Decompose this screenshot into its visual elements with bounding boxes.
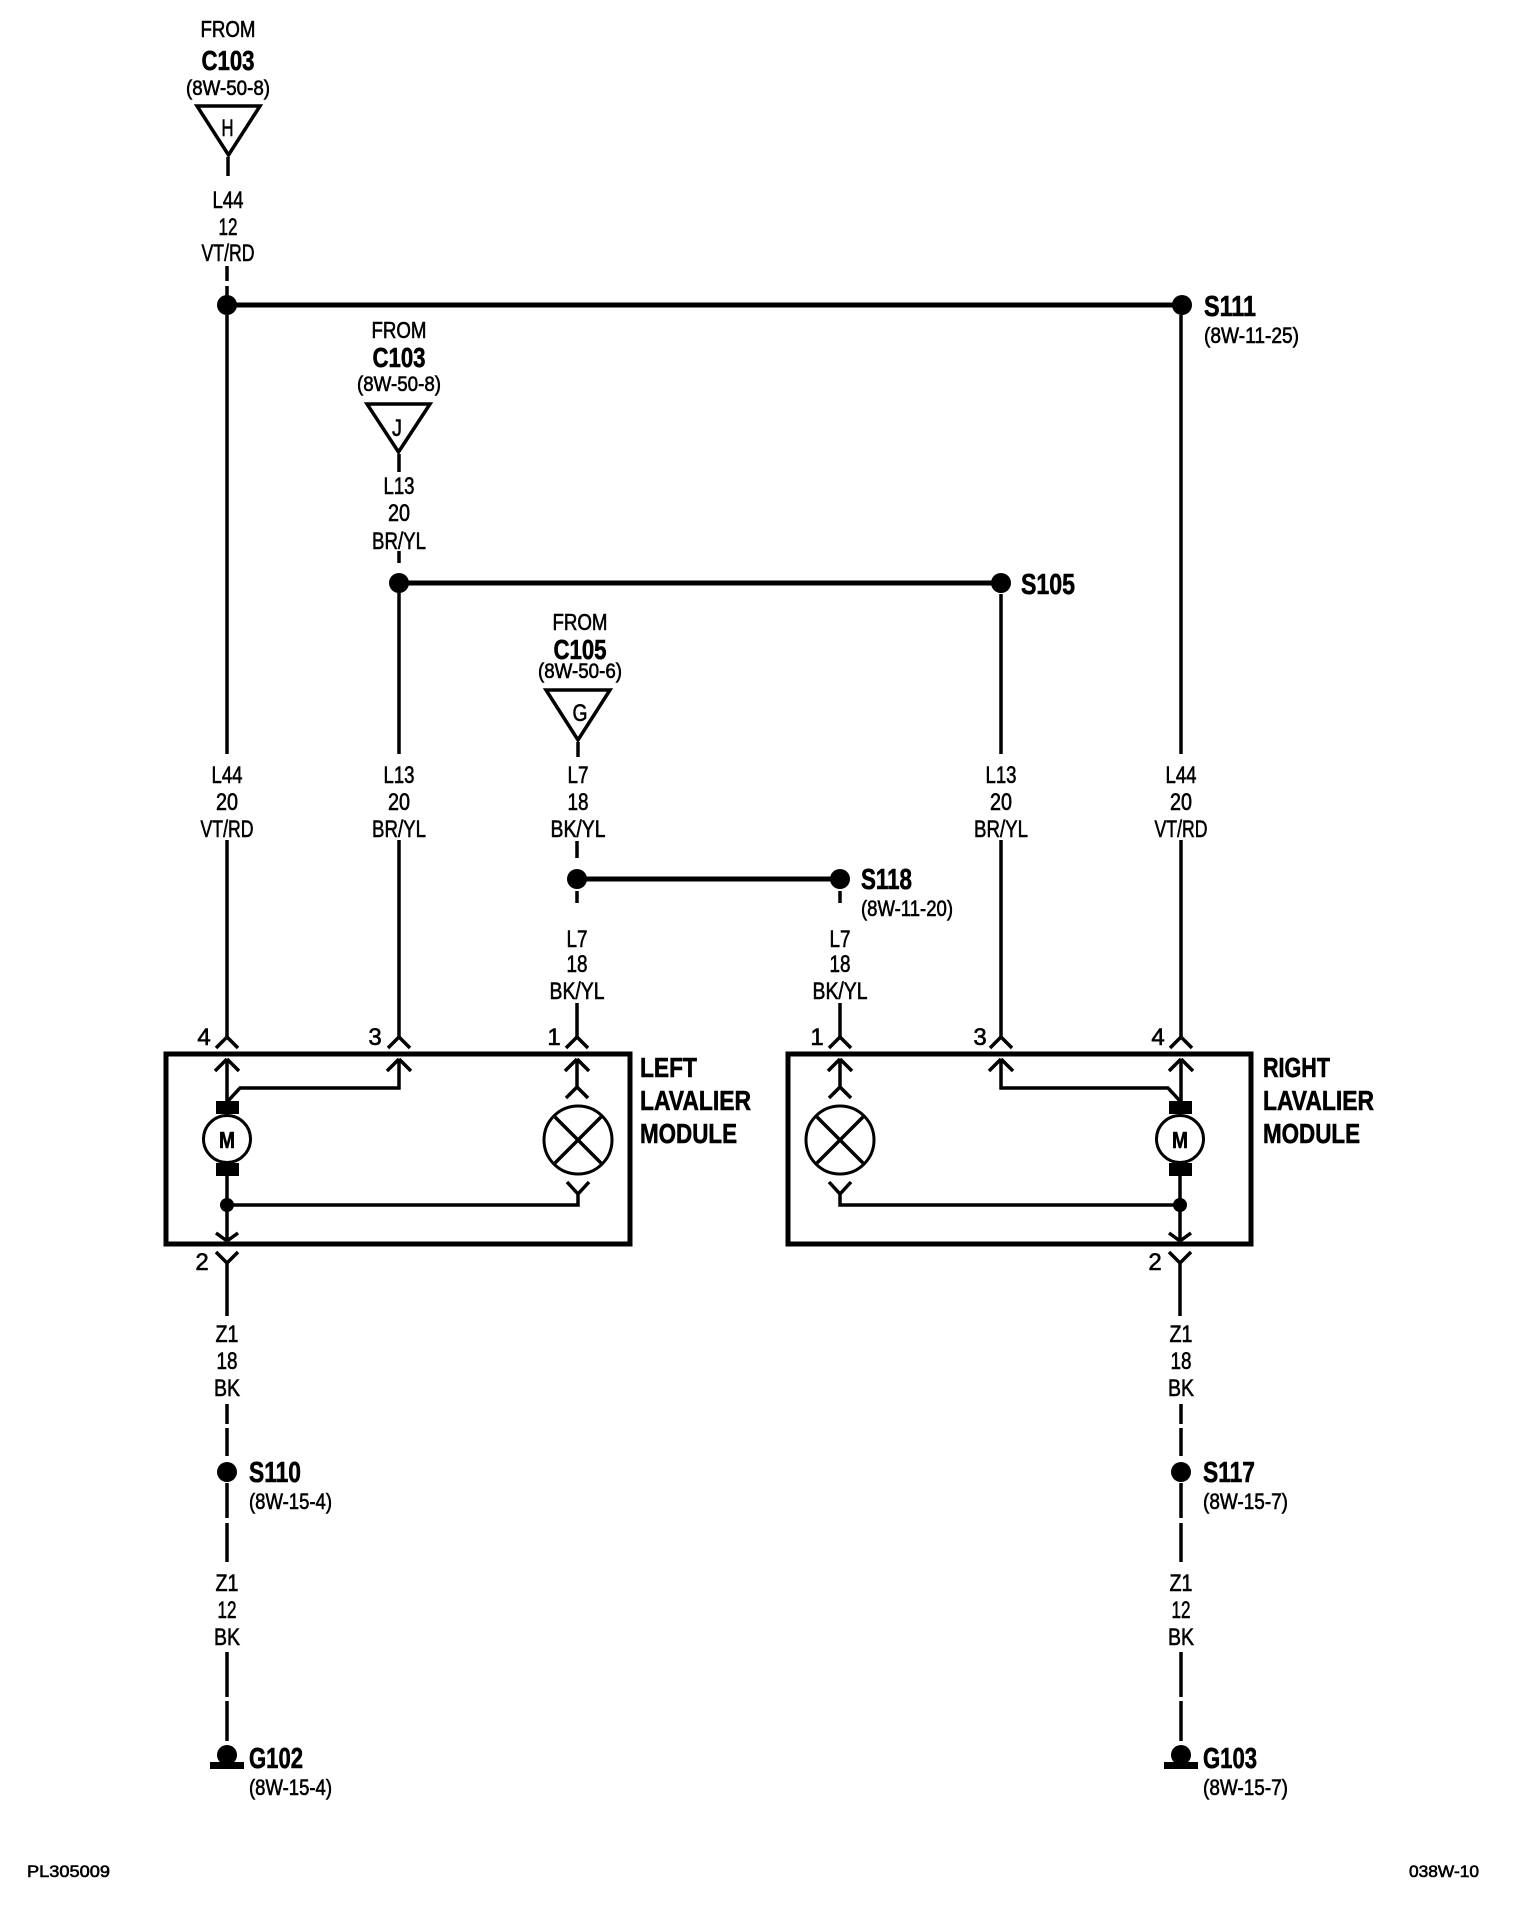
pin 2 left module [195, 1249, 238, 1316]
svg-text:(8W-50-8): (8W-50-8) [357, 373, 441, 396]
svg-text:18: 18 [217, 1348, 238, 1375]
pin 3 left module [368, 1024, 411, 1071]
svg-text:20: 20 [216, 789, 238, 816]
wire pin1 right to lamp [829, 1059, 851, 1098]
svg-text:S110: S110 [249, 1457, 301, 1489]
module box LEFT LAVALIER MODULE [166, 1054, 630, 1244]
svg-text:L13: L13 [384, 762, 415, 789]
svg-text:(8W-15-7): (8W-15-7) [1203, 1489, 1288, 1514]
lamp right [806, 1106, 874, 1174]
svg-text:PL305009: PL305009 [27, 1862, 110, 1881]
label Z1 18 BK left [214, 1321, 240, 1402]
wire L7 18 BK/YL from G to S118 [577, 742, 578, 858]
label L44 12 VT/RD [202, 187, 255, 267]
wire L44 12 VT/RD from H to S111 [227, 157, 228, 296]
svg-text:L13: L13 [986, 762, 1017, 789]
svg-text:L13: L13 [384, 473, 415, 500]
label L44 20 VT/RD (left column) [201, 762, 254, 843]
svg-text:038W-10: 038W-10 [1409, 1862, 1479, 1881]
svg-text:4: 4 [1151, 1024, 1164, 1051]
wire Z1 18 BK right to S117 [1179, 1404, 1183, 1456]
svg-text:20: 20 [1170, 789, 1192, 816]
label Z1 12 BK right [1168, 1570, 1194, 1651]
svg-text:BK: BK [1168, 1375, 1194, 1402]
pin 1 right module [810, 1024, 852, 1071]
svg-text:1: 1 [810, 1024, 823, 1051]
svg-text:2: 2 [1148, 1249, 1161, 1276]
wire S118 bus [577, 877, 840, 882]
svg-text:(8W-11-25): (8W-11-25) [1204, 323, 1299, 348]
splice S118 [830, 864, 953, 921]
svg-text:18: 18 [568, 789, 589, 816]
pin 2 right module [1148, 1249, 1191, 1316]
svg-text:(8W-50-6): (8W-50-6) [538, 660, 622, 683]
wire L7 18 BK/YL to pin 1 left [575, 891, 579, 1037]
node junction L13/S105 left [389, 573, 409, 593]
wire to ground G103 [1179, 1652, 1183, 1741]
svg-text:20: 20 [388, 789, 410, 816]
ground G103 [1164, 1743, 1288, 1800]
svg-text:18: 18 [830, 951, 851, 978]
wire pin3 left to motor [228, 1061, 399, 1101]
svg-text:3: 3 [368, 1024, 381, 1051]
module box RIGHT LAVALIER MODULE [788, 1054, 1251, 1244]
wire L44 20 VT/RD right (S111 to pin 4 right) [1179, 315, 1183, 1037]
svg-text:20: 20 [990, 789, 1012, 816]
ground G102 [210, 1743, 332, 1800]
svg-text:20: 20 [388, 500, 410, 527]
svg-text:BK: BK [1168, 1624, 1194, 1651]
svg-text:LEFT: LEFT [640, 1052, 697, 1083]
svg-text:(8W-15-7): (8W-15-7) [1203, 1775, 1288, 1800]
svg-text:VT/RD: VT/RD [201, 816, 254, 843]
svg-text:(8W-15-4): (8W-15-4) [249, 1489, 332, 1514]
wire S105 bus [399, 581, 1001, 586]
svg-text:MODULE: MODULE [640, 1118, 737, 1149]
svg-text:VT/RD: VT/RD [1155, 816, 1208, 843]
svg-text:G102: G102 [249, 1743, 303, 1775]
svg-text:RIGHT: RIGHT [1263, 1052, 1330, 1083]
splice S105 [991, 569, 1075, 601]
svg-text:G103: G103 [1203, 1743, 1257, 1775]
wire pin3 right to motor [1001, 1061, 1180, 1101]
node junction dot left module [220, 1198, 234, 1212]
pin 1 left module [547, 1024, 589, 1071]
svg-text:1: 1 [547, 1024, 560, 1051]
wire Z1 12 BK right [1179, 1483, 1183, 1562]
node junction dot right module [1173, 1198, 1187, 1212]
svg-text:Z1: Z1 [216, 1321, 239, 1348]
svg-text:H: H [222, 115, 234, 142]
svg-text:MODULE: MODULE [1263, 1118, 1360, 1149]
label RIGHT LAVALIER MODULE [1263, 1052, 1374, 1149]
motor M right [1157, 1101, 1204, 1176]
label L13 20 BR/YL (right column) [974, 762, 1028, 843]
svg-text:L7: L7 [830, 926, 851, 953]
lamp left [544, 1106, 612, 1174]
svg-text:12: 12 [1172, 1597, 1191, 1624]
svg-text:Z1: Z1 [1170, 1570, 1193, 1597]
svg-text:3: 3 [973, 1024, 986, 1051]
label L44 20 VT/RD (right column) [1155, 762, 1208, 843]
svg-text:C103: C103 [202, 45, 255, 76]
wire pin1 left to lamp [566, 1059, 588, 1098]
svg-text:FROM: FROM [372, 317, 427, 343]
svg-text:BK/YL: BK/YL [551, 816, 606, 843]
svg-text:BK: BK [214, 1375, 240, 1402]
svg-text:G: G [573, 700, 588, 727]
wire S111 bus [227, 303, 1182, 308]
svg-text:2: 2 [195, 1249, 208, 1276]
label Z1 18 BK right [1168, 1321, 1194, 1402]
svg-text:(8W-50-8): (8W-50-8) [186, 77, 270, 100]
wire Z1 12 BK left [225, 1483, 229, 1562]
wire lamp left to junction [227, 1182, 589, 1205]
wire L7 18 BK/YL to pin 1 right [838, 891, 842, 1037]
connector H (FROM C103) [186, 16, 270, 155]
wire motor right to pin 2 [1169, 1176, 1191, 1241]
svg-text:L44: L44 [212, 762, 243, 789]
svg-text:18: 18 [1171, 1348, 1192, 1375]
connector J (FROM C103) [357, 317, 441, 452]
label L13 20 BR/YL (left column) [372, 762, 426, 843]
svg-text:LAVALIER: LAVALIER [640, 1085, 751, 1116]
svg-text:S111: S111 [1204, 291, 1256, 323]
splice S111 [1172, 291, 1299, 348]
svg-text:C103: C103 [373, 342, 426, 373]
svg-text:FROM: FROM [201, 16, 256, 42]
svg-text:BR/YL: BR/YL [372, 816, 426, 843]
svg-text:18: 18 [567, 951, 588, 978]
label L7 18 BK/YL (above S118) [551, 762, 606, 843]
splice S117 [1171, 1457, 1288, 1514]
svg-text:BR/YL: BR/YL [974, 816, 1028, 843]
svg-text:BK/YL: BK/YL [550, 978, 605, 1005]
node junction L7/S118 left [567, 869, 587, 889]
wire pin4 left to motor [225, 1059, 229, 1101]
svg-text:S118: S118 [861, 864, 912, 896]
svg-text:Z1: Z1 [216, 1570, 239, 1597]
wire motor left to pin 2 [216, 1176, 238, 1241]
svg-text:FROM: FROM [553, 609, 608, 635]
wire L13 20 BR/YL from J to S105 [397, 454, 401, 563]
svg-text:L7: L7 [567, 926, 588, 953]
svg-text:12: 12 [219, 214, 238, 241]
svg-text:4: 4 [197, 1024, 210, 1051]
wire L13 20 BR/YL right (S105 to pin 3 right) [999, 594, 1003, 1037]
svg-text:M: M [219, 1127, 235, 1153]
splice S110 [217, 1457, 332, 1514]
wire to ground G102 [225, 1652, 229, 1741]
wire L44 20 VT/RD left (S111 to pin 4 left) [225, 315, 229, 1037]
svg-text:BK/YL: BK/YL [813, 978, 868, 1005]
wire lamp right to junction [829, 1182, 1180, 1205]
wire Z1 18 BK left to S110 [225, 1404, 229, 1456]
svg-text:12: 12 [218, 1597, 237, 1624]
svg-text:(8W-15-4): (8W-15-4) [249, 1775, 332, 1800]
svg-text:S105: S105 [1021, 569, 1075, 601]
label L7 18 BK/YL (left, below S118) [550, 926, 605, 1005]
svg-text:L44: L44 [213, 187, 244, 214]
label L13 20 BR/YL (under J) [372, 473, 426, 555]
wire pin4 right to motor [1179, 1059, 1183, 1101]
svg-text:J: J [392, 415, 402, 442]
svg-text:L7: L7 [568, 762, 589, 789]
label L7 18 BK/YL (right, below S118) [813, 926, 868, 1005]
svg-text:Z1: Z1 [1170, 1321, 1193, 1348]
wire L13 20 BR/YL left (S105 to pin 3 left) [397, 593, 401, 1037]
pin 4 right module [1151, 1024, 1193, 1071]
svg-text:LAVALIER: LAVALIER [1263, 1085, 1374, 1116]
svg-text:BR/YL: BR/YL [372, 528, 426, 555]
svg-text:M: M [1172, 1127, 1188, 1153]
svg-text:BK: BK [214, 1624, 240, 1651]
connector G (FROM C105) [538, 609, 622, 740]
svg-text:S117: S117 [1203, 1457, 1255, 1489]
svg-text:VT/RD: VT/RD [202, 240, 255, 267]
motor M left [204, 1101, 251, 1176]
pin 3 right module [973, 1024, 1013, 1071]
pin 4 left module [197, 1024, 239, 1071]
node junction L44/S111 left [217, 295, 237, 315]
svg-text:L44: L44 [1166, 762, 1197, 789]
label LEFT LAVALIER MODULE [640, 1052, 751, 1149]
svg-text:(8W-11-20): (8W-11-20) [861, 896, 953, 921]
label Z1 12 BK left [214, 1570, 240, 1651]
